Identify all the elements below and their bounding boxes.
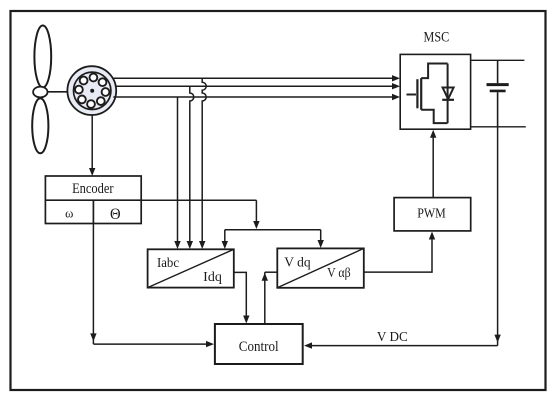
wire phase a [112, 75, 400, 81]
wire encoder theta to transforms [141, 200, 324, 249]
shaft wire [48, 91, 69, 93]
wire control to V dq [262, 272, 278, 324]
capacitor C1 (DC link) [487, 60, 509, 127]
block MSC converter [400, 54, 470, 129]
wire DC bus bottom [471, 126, 526, 128]
wire omega to control [90, 224, 214, 348]
wire generator to encoder [89, 115, 95, 176]
svg-text:PWM: PWM [417, 206, 446, 221]
generator G [67, 66, 116, 115]
wire V DC feedback [304, 127, 501, 349]
block Control [215, 324, 303, 364]
wire DC bus top [471, 59, 525, 61]
svg-text:V dq: V dq [284, 255, 311, 270]
svg-text:V αβ: V αβ [327, 265, 350, 280]
wire current tap a (hops over two lines) [199, 78, 206, 249]
wire current tap b (hops over one line) [187, 86, 194, 249]
wire current tap c [174, 97, 180, 249]
block V dq / V alpha-beta transform [277, 248, 364, 287]
block Encoder [45, 176, 141, 224]
svg-text:ω: ω [65, 207, 73, 221]
svg-text:V DC: V DC [377, 329, 408, 344]
block Iabc/Idq transform [148, 249, 234, 287]
svg-text:Iabc: Iabc [157, 255, 179, 270]
svg-text:Θ: Θ [110, 205, 121, 223]
IGBT Q1 inside MSC [407, 64, 448, 124]
wire PWM to MSC [430, 130, 436, 198]
svg-text:Control: Control [239, 338, 279, 355]
wind turbine blade lower [32, 98, 48, 153]
diode D1 (anti-parallel) [442, 64, 454, 124]
svg-text:Encoder: Encoder [72, 180, 114, 196]
wire V alpha-beta to PWM [364, 232, 435, 273]
wire phase b [115, 83, 400, 89]
svg-text:Idq: Idq [203, 270, 222, 285]
wind turbine blade upper [34, 26, 51, 88]
block PWM [394, 198, 471, 231]
wire Idq to control [234, 272, 250, 323]
svg-text:MSC: MSC [424, 28, 450, 44]
turbine hub [33, 87, 47, 98]
wire phase c [113, 94, 400, 100]
